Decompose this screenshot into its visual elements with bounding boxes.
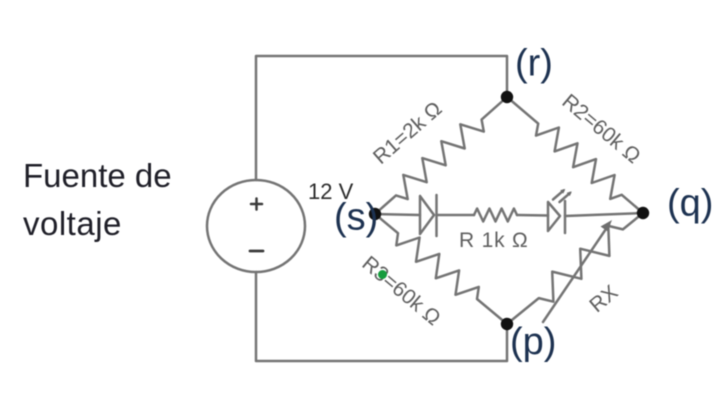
svg-text:R2=60k Ω: R2=60k Ω [558,90,645,168]
wire top loop [256,56,507,180]
node p [501,318,513,330]
svg-text:RX: RX [585,281,622,317]
node r [501,91,513,103]
voltage source V1 [207,180,305,272]
diode D1 [420,195,437,236]
svg-text:R 1k Ω: R 1k Ω [459,229,529,252]
wire LED to q [565,213,643,216]
resistor R2 [507,97,643,213]
wire diode to R [437,214,475,217]
minus terminal [250,250,263,253]
svg-text:(p): (p) [510,321,556,363]
plus terminal [251,199,262,210]
svg-text:(q): (q) [667,183,713,225]
wire R to LED [517,214,548,217]
wire bottom loop [256,272,507,361]
resistor R1 [375,97,507,214]
node s [369,208,381,220]
resistor R3 [375,214,507,324]
RX wiper arrow [543,220,612,322]
svg-text:R1=2k Ω: R1=2k Ω [369,97,447,169]
resistor R 1k [474,209,517,222]
svg-text:Fuente de: Fuente de [23,157,172,194]
green marker on R3 [378,270,387,279]
svg-text:R3=60k Ω: R3=60k Ω [358,252,445,330]
resistor RX [507,213,643,324]
LED D2 [548,189,572,233]
node q [637,207,649,219]
svg-text:(r): (r) [515,43,553,85]
svg-text:12 V: 12 V [308,179,354,204]
svg-text:voltaje: voltaje [23,205,122,242]
wire s to diode [375,214,420,215]
